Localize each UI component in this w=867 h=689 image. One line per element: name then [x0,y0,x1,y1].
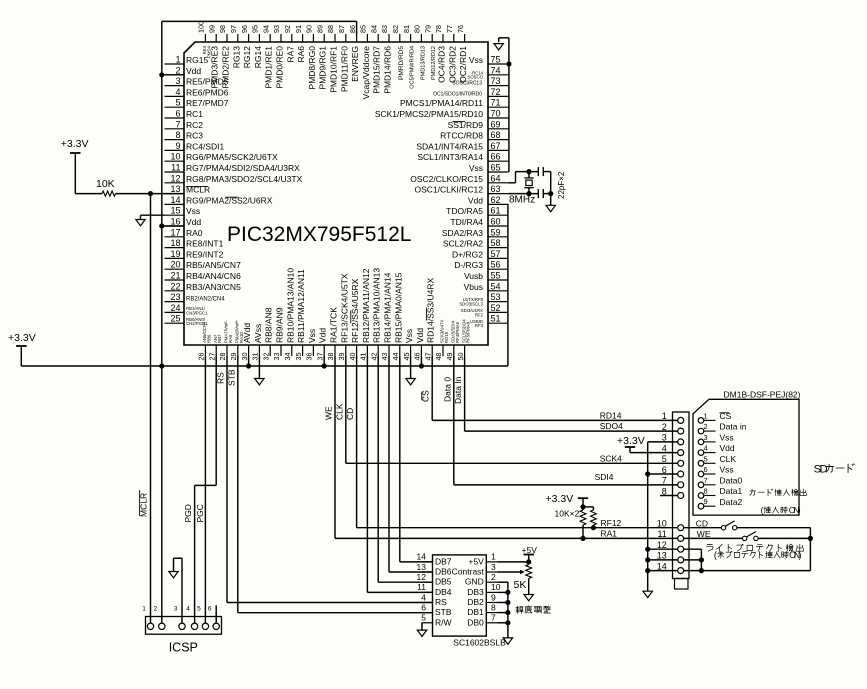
svg-text:14: 14 [657,561,667,571]
svg-text:41: 41 [359,353,368,361]
svg-text:TDO/RA5: TDO/RA5 [446,206,483,216]
svg-text:92: 92 [283,25,292,33]
wire CD net pin40 to switch SW1 [356,356,358,528]
ground LCD R/W pin5 [421,622,424,624]
svg-text:78: 78 [434,25,443,33]
svg-text:58: 58 [491,238,501,248]
wire SD case common to switches [700,549,702,570]
svg-text:SDI4: SDI4 [595,472,614,482]
svg-text:4: 4 [175,87,180,97]
svg-text:35: 35 [294,353,303,361]
svg-text:7: 7 [175,119,180,129]
IC U1 right pins 51-75 stubs numbers and labels [375,55,509,329]
svg-text:RA1: RA1 [601,529,618,539]
wire PGC net pin26 to ICSP pin5 [204,356,206,623]
svg-text:): ) [799,550,802,560]
svg-text:DB1: DB1 [467,607,484,617]
svg-text:9: 9 [704,497,708,506]
svg-text:5: 5 [197,605,201,612]
svg-text:Data 0: Data 0 [442,377,452,402]
svg-text:2: 2 [175,65,180,75]
svg-text:70: 70 [491,109,501,119]
svg-text:5: 5 [662,454,667,464]
svg-text:OC2/RD1: OC2/RD1 [458,46,468,83]
svg-text:PIC32MX795F512L: PIC32MX795F512L [227,223,411,246]
svg-text:PGC: PGC [195,504,205,522]
svg-text:22: 22 [170,281,180,291]
svg-text:D-/RG3: D-/RG3 [454,260,483,270]
wire R1 to pin13 MCLR with junction [116,193,185,195]
svg-text:RD15: RD15 [444,331,449,343]
svg-text:13: 13 [657,551,667,561]
svg-text:ICSP: ICSP [169,641,198,655]
svg-text:32: 32 [261,353,270,361]
svg-text:7: 7 [491,613,496,623]
svg-text:PMD13/RD13: PMD13/RD13 [420,46,426,80]
svg-text:D+/RG2: D+/RG2 [452,249,483,259]
svg-text:SDO3/SCL3: SDO3/SCL3 [459,302,483,307]
svg-text:RB11/PMA12/AN11: RB11/PMA12/AN11 [296,269,306,343]
svg-text:RB10/PMA13/AN10: RB10/PMA13/AN10 [285,268,295,343]
svg-text:PMD10/RF1: PMD10/RF1 [329,46,339,93]
svg-text:OC3/RD2: OC3/RD2 [447,46,457,83]
svg-text:37: 37 [315,353,324,361]
ICSP pin contacts 1-6 [142,605,219,629]
svg-text:OSC2/CLKO/RC15: OSC2/CLKO/RC15 [410,174,483,184]
svg-text:71: 71 [491,98,501,108]
IC U1 left pins 1-25 stubs numbers and labels [165,55,303,327]
svg-text:RB14/PMA1/AN14: RB14/PMA1/AN14 [383,272,393,343]
wire +3.3V to SD pin4 [629,447,631,453]
svg-text:STB: STB [226,369,236,386]
svg-text:14: 14 [170,195,180,205]
svg-text:44: 44 [391,353,400,361]
svg-text:RA7: RA7 [285,46,295,63]
svg-text:+3.3V: +3.3V [617,435,645,447]
svg-text:1: 1 [704,411,708,420]
svg-text:RB6: RB6 [206,334,211,343]
svg-text:DB2: DB2 [467,597,484,607]
svg-text:2: 2 [491,572,496,582]
svg-text:RE7/PMD7: RE7/PMD7 [186,98,229,108]
wire RS net pin28 to LCD pin4 [226,356,228,603]
svg-text:95: 95 [251,25,260,33]
svg-text:RF12/SS4/U5RX: RF12/SS4/U5RX [350,278,360,343]
svg-text:73: 73 [491,76,501,86]
svg-text:8: 8 [491,602,496,612]
svg-text:6: 6 [704,465,708,474]
ground ICSP pin3 [181,558,183,623]
svg-text:38: 38 [326,353,335,361]
svg-text:68: 68 [491,130,501,140]
svg-text:ENVREG: ENVREG [350,46,360,82]
svg-text:5: 5 [175,98,180,108]
svg-text:63: 63 [491,184,501,194]
svg-text:PMD9/RG1: PMD9/RG1 [318,46,328,90]
svg-text:60: 60 [491,217,501,227]
svg-text:WE: WE [697,529,711,539]
svg-text:57: 57 [491,249,501,259]
svg-text:7: 7 [662,476,667,486]
svg-text:RB13/PMA10/AN13: RB13/PMA10/AN13 [372,268,382,343]
svg-text:Vdd: Vdd [415,328,425,343]
svg-text:18: 18 [170,238,180,248]
svg-text:36: 36 [305,353,314,361]
svg-text:SCL1/INT3/RA14: SCL1/INT3/RA14 [417,152,483,162]
svg-text:53: 53 [491,292,501,302]
label write protect detect [707,544,712,546]
svg-text:CLK: CLK [334,403,344,420]
svg-text:CN3/PGC1: CN3/PGC1 [186,310,208,315]
svg-text:45: 45 [402,353,411,361]
svg-text:RG7/PMA4/SDI2/SDA4/U3RX: RG7/PMA4/SDI2/SDA4/U3RX [186,163,300,173]
svg-text:40: 40 [348,353,357,361]
wire +5V to LCD pin1 and pot [528,555,530,562]
svg-text:RD14: RD14 [600,410,622,420]
svg-text:DB0: DB0 [467,617,484,627]
svg-text:PMD14/RD6: PMD14/RD6 [383,46,393,94]
svg-text:Vss: Vss [469,55,483,65]
wire DB5 net pin42 to LCD pin12 [377,356,379,582]
svg-text:RC2: RC2 [186,120,203,130]
svg-text:12: 12 [170,173,180,183]
svg-text:Vdd: Vdd [468,195,483,205]
svg-text:97: 97 [229,25,238,33]
svg-text:8: 8 [662,486,667,496]
svg-text:+3.3V: +3.3V [8,332,36,344]
connector CN1 ICSP box [146,617,222,635]
svg-text:49: 49 [445,353,454,361]
svg-text:RS: RS [216,372,226,384]
svg-text:99: 99 [207,25,216,33]
svg-text:11: 11 [171,163,180,173]
svg-text:25: 25 [170,314,180,324]
svg-text:): ) [798,505,801,515]
svg-text:17: 17 [170,227,180,237]
overline SS3 pin47 / SS4 pin40 [425,308,427,321]
svg-text:DB3: DB3 [467,587,484,597]
wire PGD net pin27 jog to ICSP pin4 [215,356,217,485]
SD card outline P1 [693,399,799,515]
svg-text:2: 2 [662,422,667,432]
svg-text:PMRD/RD5: PMRD/RD5 [398,46,405,80]
svg-text:54: 54 [491,281,501,291]
svg-text:RB12/PMA11/AN12: RB12/PMA11/AN12 [361,268,371,343]
SD connector contacts and numbers [657,411,684,573]
svg-text:2: 2 [153,605,157,612]
potentiometer VR1 5K [528,562,530,565]
ground LCD data bus [503,638,512,644]
svg-text:52: 52 [491,303,501,313]
svg-text:RA9: RA9 [228,334,233,343]
wire CLK/SCK4 net pin39 to SD pin5 [345,356,347,463]
resistor R2 10K (RA1/WE pull-up) [582,507,584,510]
svg-text:Vss: Vss [469,163,483,173]
svg-text:20: 20 [170,260,180,270]
svg-text:83: 83 [380,25,389,33]
svg-text:5K: 5K [514,579,527,591]
svg-text:8MHz: 8MHz [509,195,535,206]
svg-text:6: 6 [175,109,180,119]
svg-text:DB6: DB6 [435,567,452,577]
svg-text:Vss: Vss [307,329,317,343]
svg-text:Vdd: Vdd [318,328,328,343]
svg-text:RG14: RG14 [253,46,263,68]
wire +3.3V bottom rail y=366 to Vdd pins 30,37,46,62 [20,346,22,366]
svg-text:RB3/AN3/CN5: RB3/AN3/CN5 [186,282,241,292]
svg-text:CD: CD [345,408,355,420]
svg-text:RF12: RF12 [601,518,622,528]
wire LCD GND pin2 + DB3..DB0 to ground [497,581,508,583]
svg-text:4: 4 [704,444,708,453]
ground SD bus bottom [643,591,652,597]
wire CS net pin47 to SD connector pin1 [431,356,433,420]
wire +3.3V to resistor R1 [74,153,76,194]
switch SW1 card detect (CD) [721,526,725,530]
crystal X1 circuit: wire pin64 [509,182,516,184]
svg-text:+3.3V: +3.3V [61,138,89,150]
svg-text:90: 90 [305,25,314,33]
wire ICSP pin6 stub [215,605,217,623]
svg-text:10: 10 [491,582,501,592]
svg-text:98: 98 [218,25,227,33]
svg-text:66: 66 [491,152,501,162]
svg-text:PMD4: PMD4 [206,45,211,58]
svg-text:CLK: CLK [720,454,737,464]
svg-text:OC5/PMWR/RD4: OC5/PMWR/RD4 [410,46,416,89]
wire +3.3V to R2/R3 [582,498,584,507]
svg-text:RB4/AN4/CN6: RB4/AN4/CN6 [186,271,241,281]
svg-text:80: 80 [413,25,422,33]
svg-text:RC3: RC3 [186,131,203,141]
svg-text:94: 94 [261,25,270,33]
svg-text:PMD8/RG0: PMD8/RG0 [307,46,317,90]
svg-text:SOSCO: SOSCO [467,75,483,80]
svg-text:6: 6 [208,605,212,612]
svg-text:87: 87 [337,25,346,33]
svg-text:RC1: RC1 [186,109,203,119]
svg-text:RF3: RF3 [475,323,484,328]
svg-text:RA1/TCK: RA1/TCK [329,307,339,343]
svg-text:SC1602BSLB: SC1602BSLB [453,637,506,647]
svg-text:+3.3V: +3.3V [546,493,574,505]
svg-text:64: 64 [491,173,501,183]
svg-text:D: D [820,464,828,476]
svg-text:RC4/SDI1: RC4/SDI1 [186,141,225,151]
svg-text:85: 85 [359,25,368,33]
svg-text:RG12: RG12 [242,46,252,68]
svg-text:PMD0/RE0: PMD0/RE0 [275,46,285,89]
svg-text:33: 33 [272,353,281,361]
svg-text:WE: WE [324,406,334,420]
svg-text:8: 8 [175,130,180,140]
svg-text:RG15: RG15 [186,55,208,65]
svg-text:26: 26 [197,353,206,361]
svg-text:RG8/PMA3/SDO2/SCL4/U3TX: RG8/PMA3/SDO2/SCL4/U3TX [186,174,303,184]
svg-text:55: 55 [491,271,501,281]
label brightness adjust (kanji) [516,606,519,608]
ground net right pins 75,65 Vss [508,38,510,172]
svg-text:PMD1/RE1: PMD1/RE1 [264,46,274,89]
svg-text:GND: GND [465,577,484,587]
svg-text:Data in: Data in [720,422,747,432]
svg-text:9: 9 [491,592,496,602]
svg-text:CD: CD [696,518,708,528]
svg-text:28: 28 [218,353,227,361]
capacitor C1 22pF [537,167,539,176]
svg-text:29: 29 [229,353,238,361]
IC U1 bottom pins 26-50 stubs numbers and labels [197,268,471,361]
svg-text:39: 39 [337,353,346,361]
power rail +3.3V vertical (x=161.8) pins 2,16 and top wire to pin86 ENVREG [161,21,163,623]
svg-text:10K: 10K [96,178,115,190]
svg-text:3: 3 [174,605,178,612]
svg-text:RS: RS [435,597,447,607]
svg-text:13: 13 [417,562,427,572]
svg-text:OSC1/CLKI/RC12: OSC1/CLKI/RC12 [415,185,484,195]
svg-text:30: 30 [240,353,249,361]
svg-text:RB2/AN2/CN4: RB2/AN2/CN4 [186,297,225,303]
wire Data0/SDI4 net pin49 to SD pin7 [453,356,455,485]
svg-text:PGD: PGD [183,504,193,522]
svg-text:RE9/INT2: RE9/INT2 [186,249,224,259]
svg-text:5: 5 [421,613,426,623]
crystal X1 8MHz [528,172,530,178]
svg-text:1: 1 [491,552,496,562]
svg-text:SCL2/RA2: SCL2/RA2 [443,239,483,249]
svg-text:5: 5 [704,454,708,463]
svg-text:4: 4 [186,605,190,612]
svg-text:47: 47 [423,353,432,361]
IC U1 top pins 76-100 stubs numbers and labels [197,21,469,99]
svg-text:96: 96 [240,25,249,33]
svg-text:R/W: R/W [435,617,452,627]
ground bus SD connector pins 3,6,12,13,14 [647,442,649,591]
connector CN2 DM1B-DSF-PEJ(82) box [673,412,690,579]
svg-text:1: 1 [662,411,667,421]
svg-text:10: 10 [170,152,180,162]
ground pin15 Vss [141,214,165,216]
svg-text:11: 11 [657,529,666,539]
svg-text:STB: STB [435,607,452,617]
svg-text:RF13/SCK4/U5TX: RF13/SCK4/U5TX [339,273,349,343]
wire DB7 net pin44 to LCD pin14 [399,356,401,562]
svg-text:74: 74 [491,65,501,75]
svg-text:+5V: +5V [522,545,538,555]
wire SD pin8 stub [660,495,678,497]
svg-text:(: ( [714,550,717,560]
svg-text:RD14/SS3/U4RX: RD14/SS3/U4RX [426,277,436,343]
svg-text:50: 50 [456,353,465,361]
svg-text:3: 3 [704,433,708,442]
svg-text:RF4/PMA9: RF4/PMA9 [455,321,460,343]
svg-text:Vdd: Vdd [186,66,201,76]
svg-text:SCK1/PMCS2/PMA15/RD10: SCK1/PMCS2/PMA15/RD10 [375,109,483,119]
svg-text:75: 75 [491,55,501,65]
svg-text:21: 21 [170,271,180,281]
svg-text:31: 31 [251,353,260,361]
label card insert detect (kanji) [750,490,756,492]
svg-text:Data In: Data In [453,376,463,404]
svg-text:RB9/AN9: RB9/AN9 [275,307,285,343]
svg-text:RB5/AN5/CN7: RB5/AN5/CN7 [186,260,241,270]
resistor R3 10K (RF12/CD pull-up) [592,507,594,510]
svg-text:SCK4: SCK4 [600,453,622,463]
svg-text:16: 16 [170,217,180,227]
svg-text:Vss: Vss [404,329,414,343]
pot wiper arrow from Contrast pin3 [497,571,520,573]
svg-text:46: 46 [413,353,422,361]
SD card internal pins 1-9 [698,411,747,509]
capacitor C2 22pF [537,189,539,198]
svg-text:Data0: Data0 [720,475,743,485]
svg-text:89: 89 [315,25,324,33]
svg-text:3: 3 [662,433,667,443]
svg-text:6: 6 [662,465,667,475]
svg-text:AVss: AVss [253,324,263,343]
ground pin45 Vss [410,356,412,379]
svg-text:14: 14 [417,552,427,562]
svg-text:DB7: DB7 [435,556,452,566]
svg-text:12: 12 [657,540,667,550]
svg-text:Vdd: Vdd [720,443,735,453]
svg-text:RE8/INT1: RE8/INT1 [186,239,224,249]
svg-text:RA0: RA0 [186,228,203,238]
svg-text:RF5/PMA8: RF5/PMA8 [466,321,471,343]
svg-text:Vss: Vss [186,206,200,216]
IC U1 PIC32MX795F512L outline [184,42,488,345]
svg-text:22pF×2: 22pF×2 [557,171,566,199]
svg-text:10K×2: 10K×2 [555,509,580,519]
wire WE net pin38 to switch SW2 [334,356,336,538]
LCD right pins 1,3,2,10,9,8,7 [452,552,501,628]
svg-text:DM1B-DSF-PEJ(82): DM1B-DSF-PEJ(82) [724,390,801,400]
svg-text:PMD15/RD7: PMD15/RD7 [372,46,382,94]
svg-text:81: 81 [402,25,411,33]
svg-text:4: 4 [662,443,667,453]
svg-text:Vdd: Vdd [186,217,201,227]
svg-text:9: 9 [175,141,180,151]
svg-text:OC1/SDO1/INT0/RD0: OC1/SDO1/INT0/RD0 [433,91,482,97]
svg-text:SDA2/RA3: SDA2/RA3 [442,228,483,238]
svg-text:Vss: Vss [720,465,734,475]
svg-text:(: ( [761,505,764,515]
svg-text:RG6/PMA5/SCK2/U6TX: RG6/PMA5/SCK2/U6TX [186,152,278,162]
svg-text:Vbus: Vbus [464,282,483,292]
svg-text:SDA1/INT4/RA15: SDA1/INT4/RA15 [416,141,483,151]
svg-text:Data2: Data2 [720,497,743,507]
svg-text:RA6: RA6 [296,46,306,63]
svg-text:11: 11 [417,582,426,592]
svg-text:RB7: RB7 [217,334,222,343]
svg-text:56: 56 [491,260,501,270]
svg-text:Vss: Vss [720,433,734,443]
svg-text:51: 51 [491,314,501,324]
svg-text:23: 23 [170,292,180,302]
wire DB6 net pin43 to LCD pin13 [388,356,390,572]
svg-text:100: 100 [197,21,206,33]
svg-text:6: 6 [421,602,426,612]
svg-text:91: 91 [294,25,303,33]
svg-text:10: 10 [657,519,667,529]
svg-text:72: 72 [491,87,501,97]
svg-text:3: 3 [175,76,180,86]
svg-text:RB8/AN8: RB8/AN8 [264,307,274,343]
wire DataIn/SDO4 net pin50 to SD pin2 [464,356,466,431]
svg-text:3: 3 [491,562,496,572]
svg-text:SDO4: SDO4 [600,421,623,431]
svg-text:27: 27 [207,353,216,361]
